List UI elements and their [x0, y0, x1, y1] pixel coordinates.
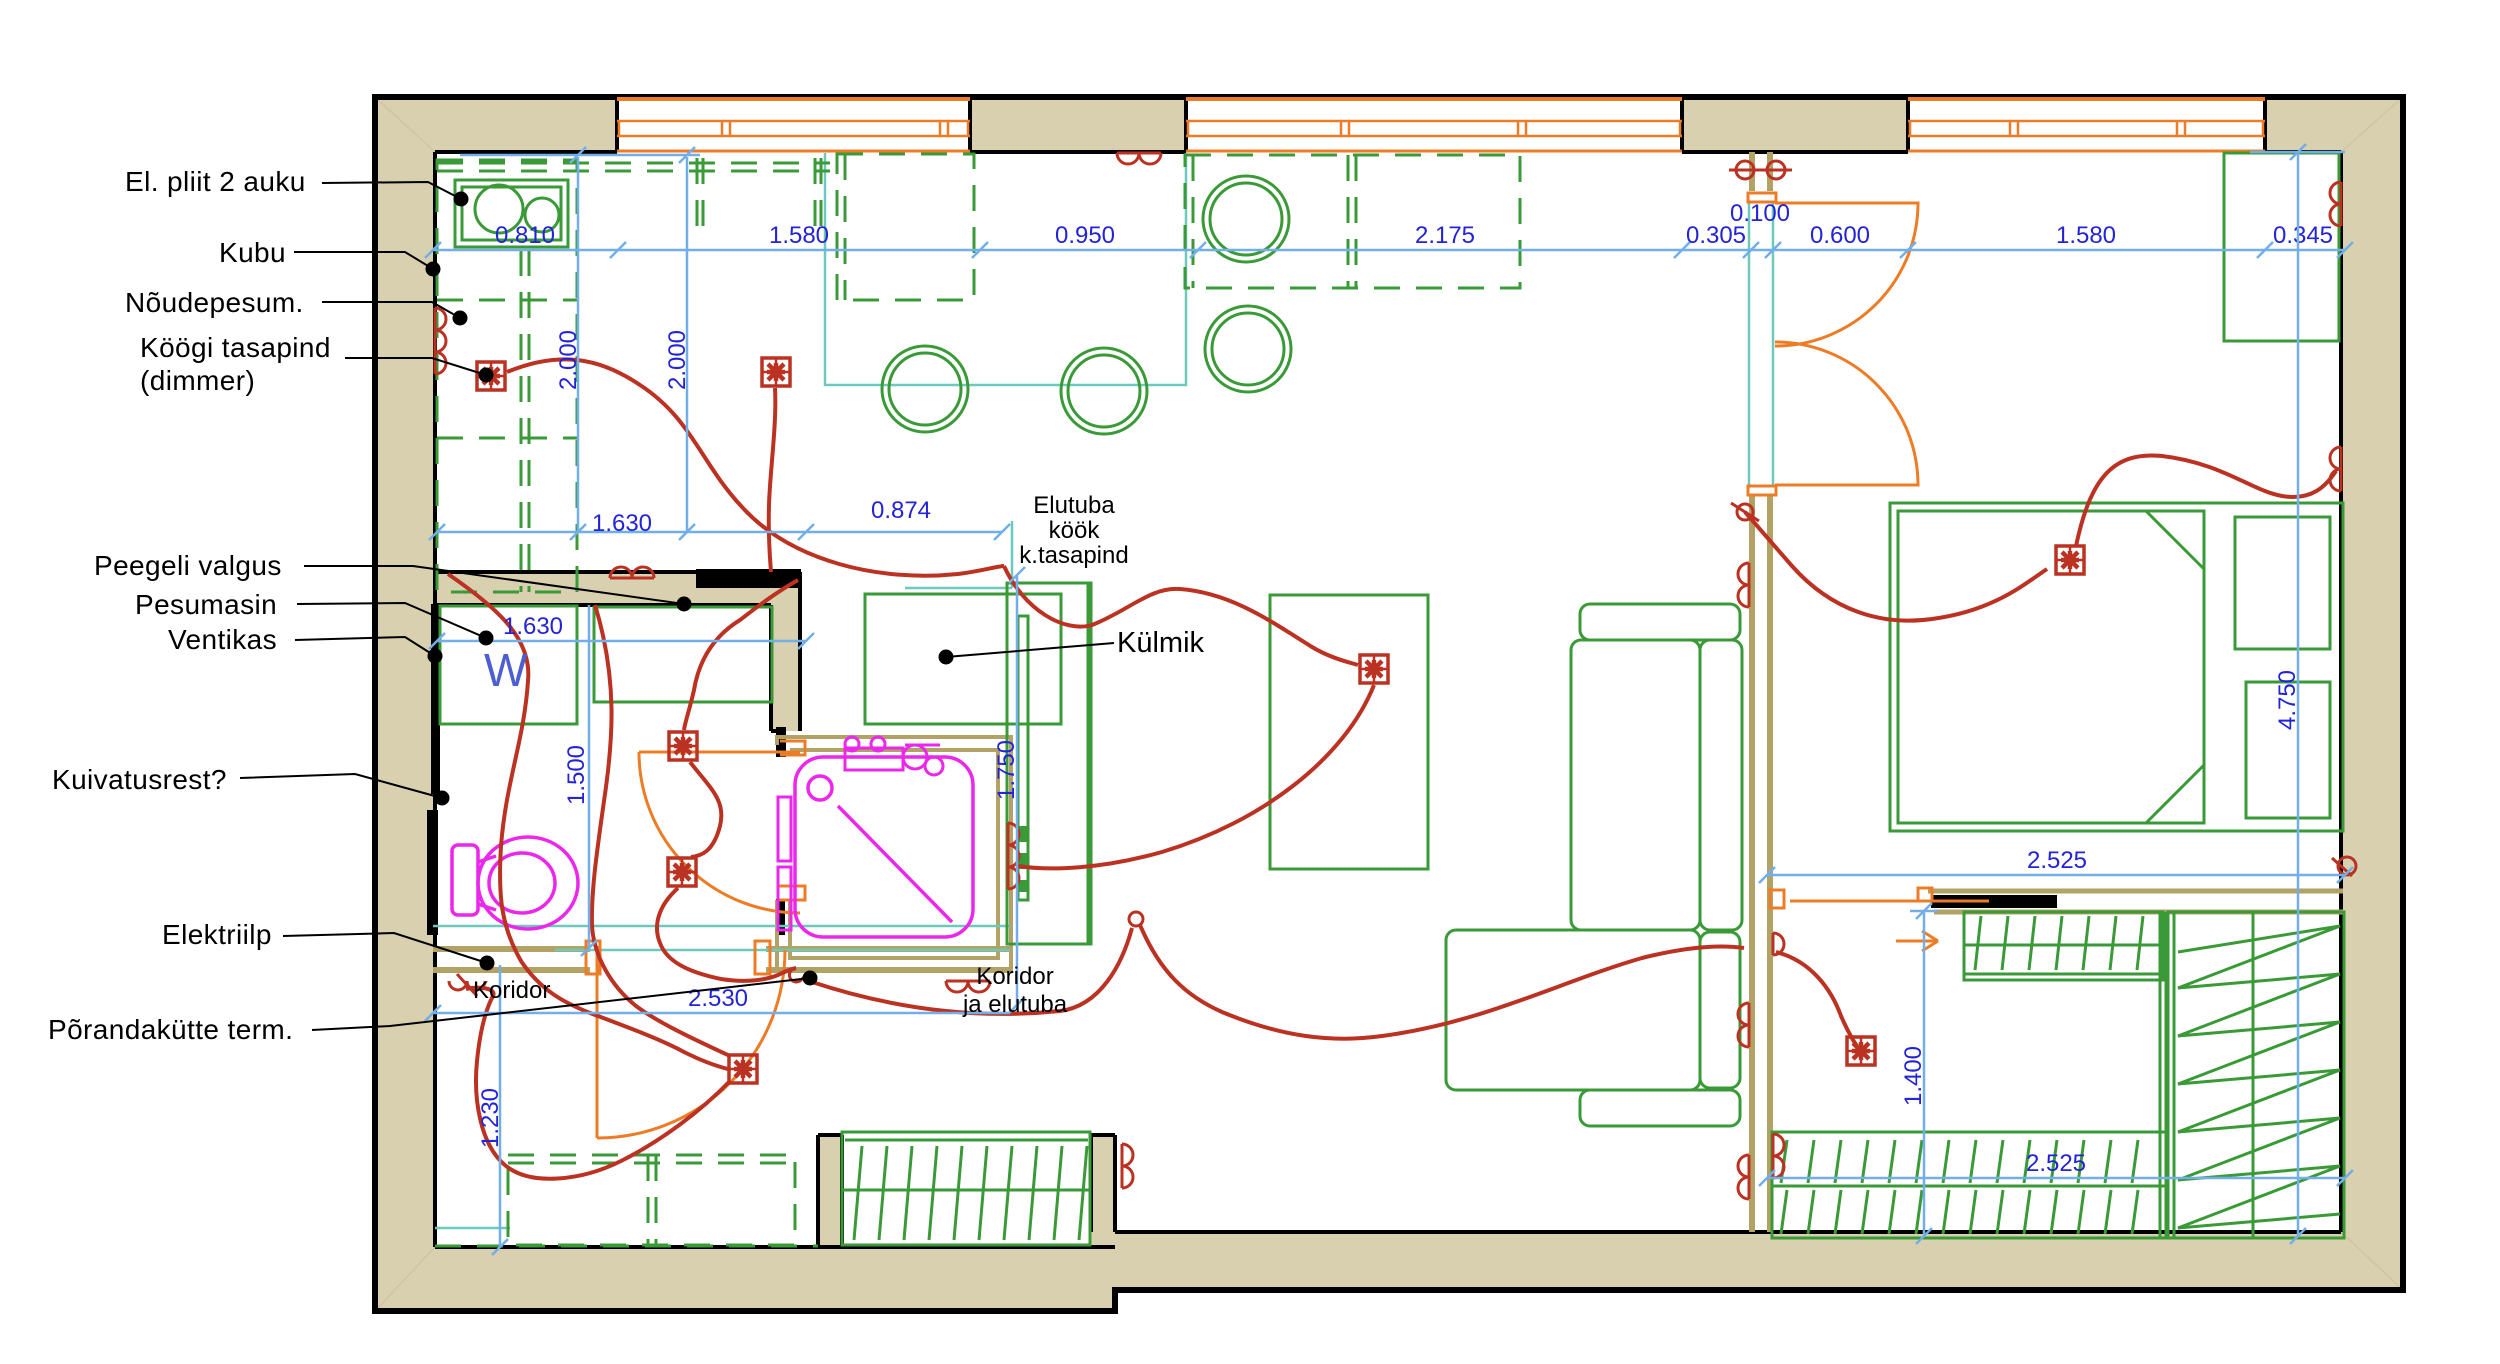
- svg-text:1.580: 1.580: [2056, 222, 2116, 249]
- dimension 1.400 vertical: [1910, 903, 1938, 1244]
- svg-text:2.000: 2.000: [664, 330, 691, 390]
- toilet: [452, 837, 578, 929]
- kitchen counter dashed outline: [437, 158, 830, 592]
- socket shower enclosure right: [1008, 823, 1019, 889]
- koridor teal floor lines: [433, 926, 1010, 950]
- kitchen tall cabinet column: [1007, 583, 1091, 944]
- socket under window block B: [1117, 153, 1161, 164]
- wire corner to TV light: [1004, 566, 1358, 665]
- closet bottom wardrobe: [1772, 1132, 2166, 1238]
- label Koridor ja elutuba: [962, 963, 1068, 1018]
- svg-text:Peegeli valgus: Peegeli valgus: [94, 550, 282, 581]
- dimension 2.525 upper: [1759, 867, 2353, 883]
- svg-text:0.874: 0.874: [871, 497, 931, 524]
- dimension line 1.630 0.874: [429, 524, 1010, 540]
- socket bathroom top wall: [610, 567, 654, 578]
- bedroom double door: [1748, 193, 1918, 495]
- junction hook koridor-elutuba: [789, 968, 806, 982]
- svg-text:1.630: 1.630: [592, 510, 652, 537]
- wire L6 to enclosure sockets: [1018, 685, 1374, 868]
- wire bedroom door to L7: [1745, 512, 2047, 621]
- windows along top wall: [617, 99, 2265, 151]
- koridor top partition walls: [433, 949, 1011, 970]
- shower tray: [795, 757, 973, 937]
- wire L4 to junction: [657, 888, 796, 981]
- label Elutuba kook ktasapind: [1019, 492, 1128, 569]
- svg-text:1.750: 1.750: [993, 740, 1020, 800]
- kitchen counter teal outline: [825, 153, 1186, 385]
- svg-text:Koridor: Koridor: [473, 977, 550, 1004]
- closet right tall wardrobe: [2168, 912, 2344, 1238]
- dimension line top: [425, 242, 2353, 258]
- dimension labels top: [495, 200, 2333, 249]
- socket partition left middle: [1738, 1003, 1749, 1047]
- wall fill outer structure: [375, 97, 2403, 1311]
- svg-text:Pesumasin: Pesumasin: [135, 589, 277, 620]
- shower room door: [639, 741, 805, 913]
- labels left column: [48, 166, 331, 1045]
- svg-text:El. pliit 2 auku: El. pliit 2 auku: [125, 166, 306, 197]
- bottom-left dashed cabinets: [435, 1155, 818, 1246]
- closet sliding door leaf: [1931, 895, 2057, 908]
- closet slide orange line and arrow: [1770, 888, 1989, 951]
- wire switch to shower light L3: [684, 580, 798, 730]
- svg-text:2.000: 2.000: [555, 330, 582, 390]
- socket partition left upper: [1738, 563, 1749, 607]
- koridor lamp symbol: [449, 974, 485, 996]
- dimension 1.230 vertical: [492, 965, 508, 1255]
- dimension line 1.630 lower: [429, 633, 814, 649]
- svg-text:Elektriilp: Elektriilp: [162, 919, 272, 950]
- dimension 1.750 vertical: [1009, 567, 1025, 1013]
- wire L3 to L4: [690, 762, 721, 857]
- svg-text:0.345: 0.345: [2273, 222, 2333, 249]
- svg-text:Koridor: Koridor: [976, 963, 1053, 990]
- ceiling light L3 shower: [669, 732, 697, 760]
- drying rack Kuivatusrest black bar: [427, 810, 438, 935]
- dimension 2.000 verticals: [570, 157, 695, 540]
- socket partition left lower: [1738, 1155, 1749, 1199]
- shower door panel: [778, 797, 791, 930]
- closet middle column lines: [1964, 912, 2166, 1238]
- washing machine box: [440, 606, 577, 724]
- radiator in niche: [842, 1132, 1090, 1245]
- kitchen tasapind teal edge: [905, 521, 1012, 588]
- thick black lintel over bathroom wall: [696, 569, 801, 588]
- ceiling light L2 kitchen: [762, 358, 790, 386]
- svg-text:1.580: 1.580: [769, 222, 829, 249]
- electric stove El. pliit: [455, 180, 568, 247]
- svg-text:Kubu: Kubu: [219, 237, 286, 268]
- kitchen right dashed cabinet: [1185, 155, 1520, 288]
- label leader dots: [426, 192, 954, 986]
- ceiling light L6 living room: [1360, 655, 1388, 683]
- socket below shower enclosure: [946, 981, 990, 992]
- wire partition to closet light: [1776, 952, 1857, 1046]
- socket bottom jut: [1122, 1144, 1133, 1188]
- svg-text:Elutuba: Elutuba: [1033, 492, 1115, 519]
- fridge box Kulmik: [865, 594, 1061, 724]
- wire bath left D1: [448, 574, 728, 1069]
- pigtail hook mid wire: [1129, 912, 1143, 926]
- thick black WC west wall segment: [431, 604, 440, 794]
- TV stand box: [1270, 595, 1428, 869]
- svg-text:(dimmer): (dimmer): [140, 365, 255, 396]
- svg-text:ja elutuba: ja elutuba: [962, 991, 1068, 1018]
- wire bath D2: [592, 605, 730, 1056]
- top-right cabinet: [2224, 153, 2339, 341]
- dimension 2.525 lower: [1759, 1170, 2353, 1186]
- svg-text:k.tasapind: k.tasapind: [1019, 542, 1128, 569]
- wall corner seams: [375, 97, 2403, 1311]
- svg-text:1.400: 1.400: [1900, 1046, 1927, 1106]
- ceiling light L1 kitchen dimmer: [477, 362, 505, 390]
- ceiling light L7 bedroom: [2056, 546, 2084, 574]
- socket partition right: [1773, 933, 1784, 955]
- ceiling light L5 koridor: [729, 1055, 757, 1083]
- socket right wall bedroom: [2330, 447, 2341, 491]
- shower enclosure walls: [777, 737, 1011, 971]
- wire L7 to wall lamp: [2076, 455, 2336, 546]
- bottom-left teal line: [435, 1227, 510, 1230]
- svg-text:0.600: 0.600: [1810, 222, 1870, 249]
- wall inner edges: [433, 97, 2341, 1247]
- socket group kitchen left wall: [435, 308, 446, 374]
- bedroom door opening teal lines: [1749, 202, 1773, 485]
- socket partition right lower: [1773, 1134, 1784, 1178]
- svg-text:Kuivatusrest?: Kuivatusrest?: [52, 764, 227, 795]
- label leader lines: [240, 182, 1114, 1030]
- svg-text:2.525: 2.525: [2027, 847, 2087, 874]
- svg-text:0.810: 0.810: [495, 222, 555, 249]
- svg-text:0.950: 0.950: [1055, 222, 1115, 249]
- dimension 2.530 line: [425, 1005, 1010, 1021]
- ceiling light L8 closet: [1847, 1037, 1875, 1065]
- dimension line y157 segment: [460, 147, 700, 163]
- shower door jamb top: [776, 727, 786, 757]
- closet top shelf: [1964, 912, 2163, 980]
- svg-text:2.175: 2.175: [1415, 222, 1475, 249]
- tall cabinet handle marks: [1018, 826, 1028, 892]
- svg-text:1.630: 1.630: [503, 613, 563, 640]
- svg-text:Köögi tasapind: Köögi tasapind: [140, 332, 331, 363]
- bedroom door lamp circle: [1731, 503, 1759, 521]
- wall lamp bedroom door right: [1760, 161, 1792, 179]
- sofa: [1446, 604, 1742, 1126]
- svg-text:2.525: 2.525: [2026, 1150, 2086, 1177]
- wire junction to partition: [812, 928, 1132, 1014]
- shower faucet: [845, 737, 943, 775]
- ceiling light L4 shower: [668, 858, 696, 886]
- svg-text:1.500: 1.500: [563, 745, 590, 805]
- svg-text:1.230: 1.230: [477, 1088, 504, 1148]
- closet sliding door track: [1928, 891, 2343, 912]
- socket right wall top: [2330, 182, 2341, 226]
- wire kitchen L1 to corner: [507, 359, 1004, 575]
- shower door jamb bottom: [776, 899, 785, 935]
- svg-text:W: W: [484, 644, 528, 696]
- svg-text:Nõudepesum.: Nõudepesum.: [125, 287, 304, 318]
- kitchen island dashed cabinet: [837, 154, 974, 300]
- svg-text:Ventikas: Ventikas: [168, 624, 277, 655]
- svg-text:köök: köök: [1049, 517, 1101, 544]
- svg-text:Põrandakütte term.: Põrandakütte term.: [48, 1014, 293, 1045]
- bed pillows: [2235, 517, 2330, 818]
- bed: [1890, 503, 2343, 831]
- koridor door: [586, 941, 785, 1138]
- wall lamp bedroom door left: [1729, 161, 1761, 179]
- svg-text:Külmik: Külmik: [1117, 627, 1205, 659]
- dimension 4.750 vertical: [2250, 144, 2345, 1244]
- dimension 1.500 vertical: [581, 605, 597, 956]
- svg-text:0.100: 0.100: [1730, 200, 1790, 227]
- wire koridor loop: [466, 988, 730, 1179]
- outer wall perimeter: [375, 97, 2403, 1311]
- partition wall hall-bedroom: [1752, 152, 1770, 1232]
- wire kitchen L2 down to switch: [769, 388, 776, 572]
- bathroom sink counter box: [594, 607, 772, 702]
- svg-text:4.750: 4.750: [2274, 670, 2301, 730]
- wall lamp right wall lower: [2332, 857, 2356, 876]
- dining stools: [882, 176, 1291, 434]
